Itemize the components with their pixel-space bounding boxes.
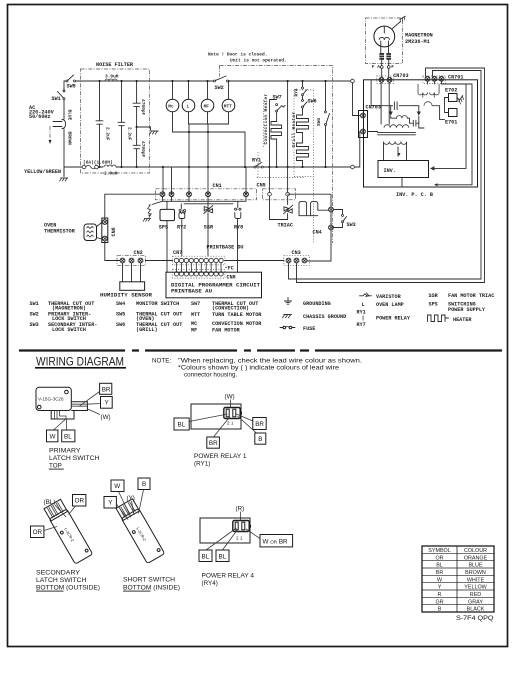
wire: filament leads to CN703 (380, 66, 383, 69)
lead to BR (80, 392, 100, 406)
motor MTT (222, 80, 235, 124)
svg-text:TRIAC: TRIAC (278, 222, 293, 228)
colour code table (422, 546, 494, 613)
svg-text:MTT: MTT (191, 312, 200, 318)
svg-text:PRINTBASE AU: PRINTBASE AU (171, 288, 212, 294)
svg-text:E701: E701 (445, 119, 457, 125)
capacitor C1 2.2uF (96, 80, 111, 168)
connector CN5 (257, 80, 296, 200)
legend grounding symbol (285, 298, 292, 305)
switch SW5 (66, 75, 76, 90)
svg-text:BR: BR (255, 421, 264, 428)
svg-text:4700pF: 4700pF (140, 99, 146, 116)
oven lamp triac (270, 196, 293, 228)
inductor 2.0uH (104, 165, 351, 177)
svg-text:BL: BL (64, 433, 72, 440)
power relay 4 (199, 506, 293, 588)
switch SW2 (214, 66, 229, 91)
svg-text:SW3: SW3 (30, 322, 39, 328)
svg-text:4700pF: 4700pF (140, 141, 146, 158)
wire: motor collector rails (163, 124, 246, 194)
humidity sensor (100, 263, 153, 299)
svg-text:INV. P. C. B: INV. P. C. B (396, 192, 433, 198)
svg-text:MTT: MTT (224, 104, 232, 110)
svg-text:50/60Hz: 50/60Hz (29, 114, 51, 120)
lead W OR BR (246, 529, 260, 539)
svg-text:(6A)(1.6UH): (6A)(1.6UH) (83, 160, 113, 166)
lead OR top (69, 506, 76, 515)
convection heater branch (263, 93, 285, 168)
wire: CN6 riser and feeder (105, 194, 160, 260)
svg-text:2 1: 2 1 (227, 421, 234, 426)
motor Mc (166, 80, 179, 132)
svg-text:"When replacing, check the lea: "When replacing, check the lead wire col… (178, 357, 362, 364)
svg-text:SW7: SW7 (191, 301, 200, 307)
ground: mains earth (59, 167, 68, 181)
svg-text:F: F (391, 64, 394, 70)
wire: CN1 drops (152, 197, 246, 210)
connector CN701 (423, 75, 464, 84)
svg-text:BL: BL (178, 422, 186, 429)
svg-text:CN5: CN5 (257, 182, 266, 188)
lead B (139, 490, 144, 514)
svg-text:OVEN LAMP: OVEN LAMP (376, 302, 404, 308)
svg-text:POWER RELAY 1: POWER RELAY 1 (194, 453, 247, 460)
ground: magnetron case (399, 16, 407, 23)
svg-text:L: L (187, 104, 190, 110)
terminal block bottom (51, 411, 74, 420)
lead to Y (87, 403, 100, 406)
wire: CN701 internal drops (428, 81, 473, 185)
terminal block right (71, 402, 87, 411)
svg-text:F A: F A (372, 64, 380, 70)
svg-text:GRAY: GRAY (468, 599, 483, 605)
inverter P.C.B outline (364, 80, 478, 187)
connector CN3 (284, 250, 310, 265)
svg-text:SSR: SSR (204, 224, 214, 230)
svg-text:SW5: SW5 (67, 84, 76, 90)
svg-text:Unit is not operated.: Unit is not operated. (230, 57, 287, 63)
svg-text:Grill Heater: Grill Heater (291, 111, 297, 147)
svg-text:Note ! Door is closed.: Note ! Door is closed. (208, 52, 267, 58)
svg-text:SW7: SW7 (273, 95, 282, 101)
lead to W (54, 419, 66, 430)
rectifier network (368, 80, 445, 131)
svg-text:(RY4): (RY4) (202, 580, 218, 587)
surge arrow + chassis ground (143, 204, 151, 221)
svg-text:(W): (W) (101, 414, 111, 421)
svg-text:BL: BL (219, 553, 227, 560)
label box Y (101, 397, 113, 409)
svg-text:BLACK: BLACK (467, 607, 485, 613)
svg-text:L: L (362, 302, 365, 308)
dashed box: door operated section (220, 66, 333, 244)
svg-text:MAGNETRON: MAGNETRON (405, 33, 433, 39)
legend chassis ground symbol (282, 315, 292, 319)
svg-text:BR: BR (436, 570, 444, 576)
svg-text:BR: BR (209, 440, 218, 447)
svg-text:RY4: RY4 (294, 88, 300, 96)
relay contact RY1 (252, 158, 263, 169)
svg-text:E702: E702 (445, 87, 457, 93)
svg-text:SW6: SW6 (308, 99, 317, 105)
AC plug (49, 120, 66, 145)
lead Y (116, 504, 128, 520)
earth lead E701 (445, 109, 457, 126)
HV transformer (378, 125, 416, 161)
label FC (225, 265, 234, 271)
lead (Y) (132, 501, 135, 515)
svg-text:CHASSIS GROUND: CHASSIS GROUND (303, 314, 346, 320)
svg-text:2.2uF: 2.2uF (127, 127, 133, 141)
svg-text:BLUE: BLUE (67, 110, 73, 121)
svg-text:S-7F4 QPQ: S-7F4 QPQ (456, 615, 494, 622)
svg-text:SW1: SW1 (52, 96, 61, 102)
grill heater branch (291, 80, 317, 168)
wire: line feed to CN703 (353, 83, 361, 167)
svg-text:MF: MF (191, 328, 197, 334)
lead to (W) (87, 409, 100, 415)
svg-text:(GRILL): (GRILL) (136, 327, 158, 333)
svg-text:SW2: SW2 (30, 312, 39, 318)
oven thermistor (44, 223, 102, 241)
wire: top bus left corner (64, 81, 66, 91)
svg-text:SW4: SW4 (316, 118, 322, 126)
svg-text:CN7: CN7 (173, 250, 182, 256)
svg-text:POWER SUPPLY: POWER SUPPLY (448, 307, 486, 313)
svg-text:W OR BR: W OR BR (263, 538, 289, 545)
relay RY2 (177, 209, 186, 256)
node: line terminal to inverter (top) (351, 79, 355, 83)
svg-text:THERMISTOR: THERMISTOR (44, 229, 76, 235)
relay contacts RY7 (lamp) (299, 202, 329, 216)
svg-text:PRIMARY: PRIMARY (49, 447, 81, 454)
svg-text:SW4: SW4 (116, 301, 125, 307)
svg-text:SPS: SPS (429, 302, 438, 308)
svg-text:2.2uF: 2.2uF (105, 127, 111, 141)
svg-text:POWER RELAY: POWER RELAY (376, 316, 411, 322)
switching power supply SPS (159, 209, 175, 272)
svg-text:SYMBOL: SYMBOL (428, 548, 450, 554)
svg-text:NOTE:: NOTE: (152, 357, 171, 364)
svg-text:OR: OR (75, 498, 85, 505)
svg-text:SHORT SWITCH: SHORT SWITCH (123, 576, 175, 583)
power relay 1 (174, 394, 266, 468)
svg-text:R: R (438, 592, 442, 598)
node: neutral terminal to inverter (bottom) (351, 165, 355, 169)
svg-text:SW2: SW2 (215, 85, 224, 91)
svg-text:B: B (438, 607, 442, 613)
magnetron 2M236-M1 (374, 22, 401, 54)
short switch (104, 478, 180, 592)
svg-text:2 1: 2 1 (236, 536, 243, 541)
wire: convection rail (270, 100, 277, 168)
magnetron filament leads into transformer (381, 83, 389, 124)
svg-text:MC: MC (191, 321, 197, 327)
svg-text:CN3: CN3 (292, 250, 301, 256)
svg-text:YELLOW: YELLOW (464, 585, 487, 591)
svg-text:RY8: RY8 (234, 224, 243, 230)
capacitors C3 C4 4700pF (133, 80, 146, 168)
svg-text:|: | (362, 316, 365, 322)
heater: grill element lower (297, 143, 309, 167)
svg-text:connector housing.: connector housing. (184, 372, 237, 379)
wire: earth links (445, 98, 460, 113)
svg-text:CN703: CN703 (393, 73, 408, 79)
svg-text:CN703: CN703 (366, 104, 381, 110)
svg-text:BL: BL (202, 553, 210, 560)
wire: line input vertical (63, 89, 65, 177)
svg-text:MF: MF (204, 104, 210, 110)
separator dashed rule (19, 349, 502, 351)
wire: filter mid tap to chassis (137, 127, 151, 130)
svg-text:CN6: CN6 (111, 227, 117, 236)
svg-text:OR: OR (435, 555, 443, 561)
lamp L (182, 80, 195, 124)
svg-text:FUSE: FUSE (303, 326, 315, 332)
svg-text:(BL): (BL) (44, 499, 56, 506)
svg-text:B: B (142, 481, 146, 488)
svg-text:B: B (258, 436, 262, 443)
heater: convection element (271, 112, 282, 167)
svg-text:Convection Heater: Convection Heater (263, 93, 269, 144)
svg-text:Y: Y (438, 585, 442, 591)
svg-text:OR: OR (33, 529, 43, 536)
connector CN703 (input side) (359, 104, 381, 137)
svg-text:(CONVECTION): (CONVECTION) (212, 306, 249, 312)
wire: inverter feed loop inner (289, 71, 482, 280)
svg-text:W: W (114, 483, 120, 490)
svg-text:PRINTBASE DU: PRINTBASE DU (207, 245, 244, 251)
svg-text:*Colours shown by ( ) indica: *Colours shown by ( ) indicate colours o… (178, 365, 340, 372)
svg-text:FAN MOTOR: FAN MOTOR (212, 328, 241, 334)
label box BR (100, 383, 112, 394)
lead BL (189, 414, 227, 422)
svg-text:V-15G-3C26: V-15G-3C26 (38, 396, 64, 401)
inductor 3.0uH (105, 74, 119, 82)
svg-text:W: W (50, 433, 56, 440)
motor MF (201, 80, 214, 124)
connector CN1 (156, 183, 257, 200)
lead BR bottom (214, 417, 231, 438)
label box W (47, 430, 58, 442)
lead OR left (44, 527, 57, 531)
svg-text:COLOUR: COLOUR (464, 548, 487, 554)
lead BL 1 (206, 528, 237, 550)
svg-text:GROUNDING: GROUNDING (303, 301, 331, 307)
fuse (6A)(1.6UH) (64, 160, 113, 169)
magnetron dashed enclosure (366, 18, 403, 64)
svg-text:CN8: CN8 (227, 274, 236, 280)
switch SW1 (52, 90, 66, 102)
svg-text:FAN MOTOR TRIAC: FAN MOTOR TRIAC (448, 293, 494, 299)
AC source labels (29, 105, 55, 120)
capacitor C2 2.2uF (118, 80, 133, 168)
svg-text:SECONDARY: SECONDARY (36, 569, 81, 576)
svg-text:CN701: CN701 (448, 75, 463, 81)
svg-text:INV.: INV. (384, 168, 396, 174)
svg-text:WHITE: WHITE (467, 577, 485, 583)
svg-text:BR: BR (102, 386, 111, 393)
lead W (119, 492, 132, 518)
legend fuse symbol (280, 326, 295, 329)
chassis ground (noise filter) (149, 131, 158, 134)
svg-text:LOCK SWITCH: LOCK SWITCH (52, 327, 86, 333)
monitor switch SW4 (316, 80, 330, 168)
lead B (238, 416, 257, 433)
svg-text:VARISTOR: VARISTOR (376, 294, 402, 300)
svg-text:3.0uH: 3.0uH (105, 74, 119, 80)
svg-text:BLUE: BLUE (468, 563, 482, 569)
chassis ground (inverter) (458, 95, 466, 104)
lead BL 2 (223, 530, 238, 551)
svg-text:WIRING DIAGRAM: WIRING DIAGRAM (36, 357, 124, 369)
lead BR right (237, 414, 253, 421)
switch SW3 (334, 210, 356, 228)
svg-text:BROWN: BROWN (67, 132, 73, 146)
connector CN703 (magnetron) (377, 73, 409, 83)
svg-text:SW6: SW6 (116, 322, 125, 328)
relay RY8 (234, 208, 243, 272)
legend varistor symbol (360, 293, 372, 296)
svg-text:(W): (W) (225, 394, 235, 401)
svg-text:TOP: TOP (49, 462, 62, 469)
ferrite chokes on filament leads (379, 53, 391, 60)
digital programmer circuit box (166, 272, 262, 298)
svg-text:FC: FC (228, 265, 234, 271)
svg-text:SW1: SW1 (30, 301, 39, 307)
svg-text:YELLOW/GREEN: YELLOW/GREEN (24, 169, 61, 175)
svg-text:NOISE FILTER: NOISE FILTER (96, 62, 134, 68)
relay contact RY4 (302, 87, 304, 89)
svg-text:CN2: CN2 (134, 250, 143, 256)
svg-text:HEATER: HEATER (453, 317, 472, 323)
label box BL (62, 430, 75, 442)
svg-text:2.0uH: 2.0uH (104, 171, 118, 177)
svg-text:RY1: RY1 (252, 158, 261, 164)
svg-text:SSR: SSR (429, 293, 439, 299)
svg-text:BL: BL (436, 563, 443, 569)
svg-text:TURN TABLE MOTOR: TURN TABLE MOTOR (212, 312, 262, 318)
svg-text:BOTTOM (OUTSIDE): BOTTOM (OUTSIDE) (36, 584, 100, 591)
secondary latch switch (31, 495, 101, 592)
connector CN6 (102, 218, 117, 243)
svg-text:CN1: CN1 (213, 183, 222, 189)
legend heater symbol (428, 315, 449, 322)
svg-text:(RY1): (RY1) (194, 461, 210, 468)
wire: grill rail (302, 81, 304, 87)
svg-text:CONVECTION MOTOR: CONVECTION MOTOR (212, 321, 262, 327)
svg-text:POWER RELAY 4: POWER RELAY 4 (202, 572, 255, 579)
fan motor triac SSR (204, 206, 214, 257)
switch SW7 (276, 104, 278, 106)
wire: inverter feed loop outer (297, 68, 485, 283)
svg-text:MONITOR SWITCH: MONITOR SWITCH (136, 301, 179, 307)
svg-text:LATCH SWITCH: LATCH SWITCH (49, 455, 100, 462)
wire: top bus (76, 80, 351, 82)
svg-text:GR: GR (435, 599, 443, 605)
heater: grill element upper (297, 108, 309, 143)
svg-text:ORANGE: ORANGE (464, 555, 488, 561)
INV control box (378, 161, 429, 188)
svg-text:HUMIDITY SENSOR: HUMIDITY SENSOR (100, 293, 153, 299)
connector CN7 double row (146, 245, 285, 279)
switch SW6 (302, 96, 304, 100)
earth lead E702 (445, 87, 457, 101)
svg-text:(R): (R) (236, 506, 245, 513)
svg-text:2M236-M1: 2M236-M1 (405, 39, 430, 45)
svg-text:RY7: RY7 (357, 322, 366, 328)
svg-text:RED: RED (470, 592, 481, 598)
lead (BL) (55, 505, 66, 517)
svg-text:SW5: SW5 (116, 312, 125, 318)
svg-text:SW3: SW3 (347, 222, 356, 228)
svg-text:CN4: CN4 (313, 229, 322, 235)
connector CN2 (117, 250, 146, 265)
primary latch switch (36, 383, 112, 469)
svg-text:BROWN: BROWN (465, 570, 486, 576)
svg-text:Mc: Mc (168, 104, 174, 110)
svg-text:LATCH SWITCH: LATCH SWITCH (36, 577, 87, 584)
noise filter dashed box (81, 69, 150, 173)
connector CN4 (288, 194, 334, 261)
lead to BL (66, 419, 68, 430)
filament transformer winding (418, 84, 439, 98)
svg-text:BOTTOM (INSIDE): BOTTOM (INSIDE) (123, 584, 180, 591)
